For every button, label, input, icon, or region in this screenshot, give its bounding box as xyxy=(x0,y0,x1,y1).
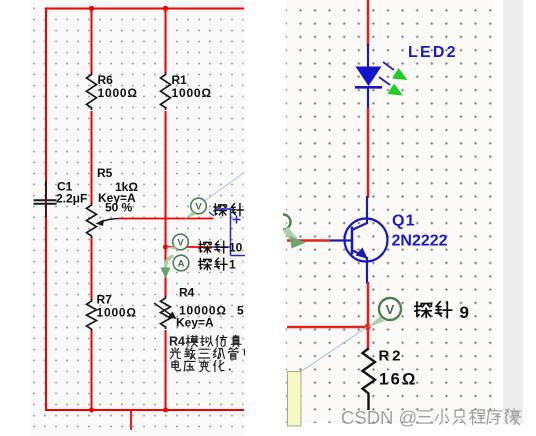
resistor R1 xyxy=(161,72,171,110)
annotation text line2 光敏三级管 xyxy=(170,348,253,359)
node junction bottom B xyxy=(89,408,94,413)
wire branch C vertical (R1/R4 column) xyxy=(165,9,167,411)
watermark CSDN xyxy=(341,407,521,428)
leader line to note box xyxy=(301,328,367,372)
svg-text:5: 5 xyxy=(237,304,244,318)
svg-text:16Ω: 16Ω xyxy=(379,371,418,389)
label 探针(8) xyxy=(214,204,244,216)
Q1 base lead xyxy=(329,239,352,241)
resistor R6 xyxy=(87,72,97,110)
LED2 triangle xyxy=(356,67,382,87)
wire R5 wiper horizontal xyxy=(119,218,214,220)
svg-text:A: A xyxy=(178,259,185,270)
potentiometer R4 xyxy=(161,296,171,329)
resistor R2 xyxy=(363,349,376,411)
svg-text:10: 10 xyxy=(229,241,243,255)
probe V 探针9 pointer wedge xyxy=(368,317,385,328)
voltmeter fragment blue xyxy=(212,208,245,256)
svg-text:R4: R4 xyxy=(179,286,195,300)
Q1 base bar xyxy=(351,227,354,255)
wire horizontal to emitter node (red) xyxy=(287,326,368,329)
svg-text:V: V xyxy=(195,202,202,213)
svg-text:R6: R6 xyxy=(98,73,114,87)
svg-text:R4: R4 xyxy=(169,335,185,349)
LED2 cathode bar xyxy=(355,86,382,89)
svg-text:1000Ω: 1000Ω xyxy=(98,86,138,100)
wire base branch (red) xyxy=(287,239,330,242)
svg-text:Key=A: Key=A xyxy=(176,316,214,330)
LED2 light arrow 1 xyxy=(383,62,394,70)
LED2 anode lead xyxy=(367,44,369,68)
wire collector branch top (red) xyxy=(367,0,370,46)
probe A 探针1 circle xyxy=(173,255,189,271)
note box (yellow) xyxy=(288,372,302,427)
Q1 emitter lead with arrow xyxy=(352,250,367,284)
LED2 light arrow 2 xyxy=(379,77,390,85)
potentiometer R5 wiper arrow xyxy=(100,219,119,223)
left schematic sheet background xyxy=(30,0,244,436)
wire left vertical xyxy=(45,8,47,411)
node junction probe10 xyxy=(163,245,168,250)
wire top rail xyxy=(45,8,244,10)
label 探针10 xyxy=(199,241,227,253)
annotation text line1 R4模拟仿真 xyxy=(169,335,255,349)
svg-text:CSDN @: CSDN @ xyxy=(341,407,417,428)
probe V 探针8 pointer wedge xyxy=(185,212,197,220)
node junction emitter xyxy=(364,324,370,330)
potentiometer R5 xyxy=(87,203,97,238)
transistor Q1 circle xyxy=(345,219,388,262)
svg-text:R1: R1 xyxy=(172,73,188,87)
wire bottom rail xyxy=(45,409,244,411)
capacitor C1 leads xyxy=(45,181,47,217)
leader line probe8 xyxy=(203,172,245,202)
svg-text:.: . xyxy=(228,360,231,374)
svg-text:50 %: 50 % xyxy=(105,201,133,215)
svg-text:R2: R2 xyxy=(379,348,404,365)
label 探针1 xyxy=(199,258,227,270)
node junction top B xyxy=(89,6,94,11)
svg-text:LED2: LED2 xyxy=(408,44,458,61)
svg-text:1: 1 xyxy=(229,258,236,272)
wire probe10 horizontal xyxy=(166,246,213,248)
svg-text:1000Ω: 1000Ω xyxy=(172,86,212,100)
node junction top C xyxy=(163,6,168,11)
wire LED to Q1 (red) xyxy=(367,108,370,198)
unconnected pin marker xyxy=(209,212,214,216)
svg-text:R7: R7 xyxy=(97,293,113,307)
voltmeter plus sign xyxy=(233,216,241,224)
potentiometer R4 arrow xyxy=(154,303,171,315)
probe A current arrow xyxy=(166,256,174,268)
svg-text:2.2μF: 2.2μF xyxy=(56,192,87,206)
probe V 探针9 circle xyxy=(379,298,401,320)
capacitor C1 plates xyxy=(34,200,57,204)
wire emitter branch (red) xyxy=(367,282,370,350)
svg-text:R5: R5 xyxy=(97,166,113,180)
svg-text:2N2222: 2N2222 xyxy=(392,233,448,250)
probe V 探针10 circle xyxy=(173,234,189,250)
LED2 cathode lead xyxy=(367,88,369,110)
svg-text:1000Ω: 1000Ω xyxy=(97,306,137,320)
probe V 探针10 pointer wedge xyxy=(166,247,178,251)
label 探针9 xyxy=(415,302,452,318)
resistor R7 xyxy=(87,299,97,331)
annotation green arrow to base xyxy=(283,215,291,230)
probe V 探针8 circle xyxy=(191,198,207,214)
Q1 collector lead xyxy=(352,196,367,230)
node junction bottom C xyxy=(163,408,168,413)
annotation text line3 电压变化 xyxy=(172,360,232,374)
wire bottom stub xyxy=(130,410,132,430)
right schematic sheet background xyxy=(286,0,494,423)
svg-text:Q1: Q1 xyxy=(392,213,416,230)
svg-text:V: V xyxy=(386,302,395,317)
wire branch B vertical (R6/R5/R7 column) xyxy=(91,9,93,411)
right gray scrollbar strip xyxy=(503,0,523,424)
svg-text:9: 9 xyxy=(460,303,469,322)
svg-text:V: V xyxy=(177,238,184,249)
